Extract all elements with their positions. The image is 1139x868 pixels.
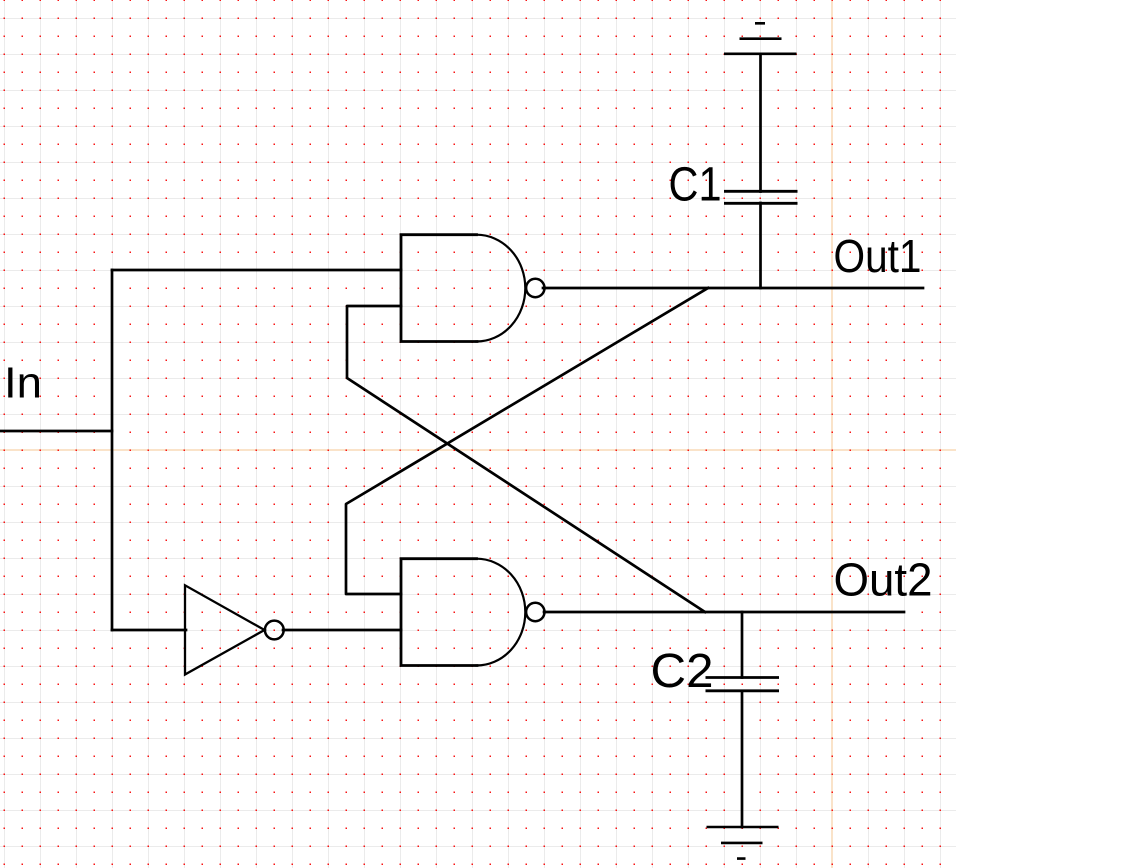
wire C1 to Out1 <box>759 203 762 288</box>
wire inverter input <box>112 629 186 632</box>
svg-text:In: In <box>4 360 42 408</box>
wire Out1 <box>543 287 923 290</box>
capacitor C1 plates <box>724 191 798 203</box>
svg-text:C2: C2 <box>651 644 714 698</box>
wire NAND1 input2 from Out2 (bend + diagonal) <box>347 306 705 612</box>
wire Out2 to C2 <box>741 612 744 678</box>
wire C1 to ground <box>759 54 762 192</box>
ground top (inverted) <box>724 23 797 54</box>
nand gate U2 body <box>401 559 477 666</box>
wire inverter output <box>283 629 401 632</box>
wire Out2 <box>544 611 904 614</box>
ground bottom <box>707 827 779 859</box>
svg-text:Out1: Out1 <box>834 230 922 282</box>
nand gate U2 bubble <box>526 603 544 621</box>
svg-text:Out2: Out2 <box>834 554 933 606</box>
wire In vertical branch <box>111 270 114 630</box>
wire NAND2 input1 from Out1 (diagonal + bend) <box>346 288 708 594</box>
inverter U3 bubble <box>265 621 284 640</box>
wire C2 to ground <box>741 691 744 827</box>
wire NAND1 input1 <box>112 269 401 272</box>
nand gate U1 bubble <box>526 279 544 297</box>
inverter U3 body <box>185 585 265 674</box>
svg-text:C1: C1 <box>669 157 722 211</box>
nand gate U1 body <box>401 235 477 342</box>
wire In horizontal <box>0 430 112 433</box>
capacitor C2 plates <box>706 678 780 691</box>
